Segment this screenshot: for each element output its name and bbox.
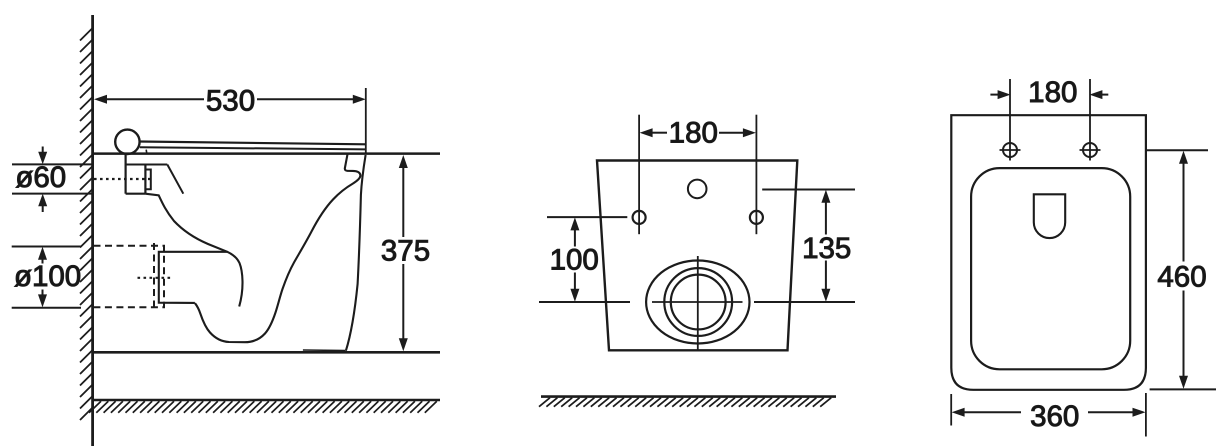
svg-text:180: 180: [1028, 76, 1077, 109]
svg-text:530: 530: [206, 85, 255, 118]
svg-text:360: 360: [1030, 400, 1079, 433]
svg-text:375: 375: [381, 235, 430, 268]
svg-text:ø100: ø100: [14, 260, 81, 293]
svg-text:135: 135: [802, 232, 851, 265]
svg-text:460: 460: [1157, 261, 1206, 294]
svg-text:ø60: ø60: [15, 161, 66, 194]
svg-text:180: 180: [669, 117, 718, 150]
svg-text:100: 100: [550, 243, 599, 276]
